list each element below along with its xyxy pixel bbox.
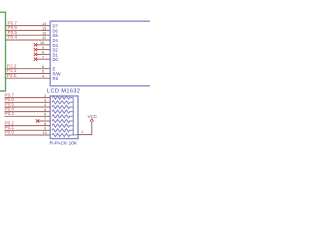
resistor R2 of RP1 (52, 101, 73, 104)
svg-text:P2.0: P2.0 (7, 73, 17, 78)
microcontroller U1 (body cut off at left edge) (0, 12, 6, 91)
wire P0.5 to RP1 pin 4 (5, 106, 51, 108)
wire P0.3 to RP1 pin 6 (5, 115, 51, 117)
resistor R5 of RP1 (52, 115, 73, 118)
wire P0.6 to LCD pin 13 (6, 29, 51, 31)
LCD pin 5 R/W (42, 69, 61, 77)
wire P0.4 to LCD pin 11 (6, 39, 51, 41)
wire P0.0 to RP1 pin 10 (5, 134, 51, 136)
svg-text:VCC: VCC (88, 114, 98, 119)
LCD pin 14 D7 (42, 21, 58, 29)
svg-text:RS: RS (53, 76, 59, 81)
svg-text:D0: D0 (53, 57, 59, 62)
no-connect cross on D2 (34, 48, 37, 51)
LCD pin 4 RS (42, 73, 58, 81)
resistor R8 of RP1 (52, 129, 73, 132)
wire P0.4 to RP1 pin 5 (5, 111, 51, 113)
resistor pack RP1 body (50, 96, 78, 139)
LCD pin 10 D3 with stub (37, 40, 59, 48)
wire P2.2 to LCD pin 6 E (6, 68, 51, 70)
RP1 pin 7 stub (unconnected) (38, 120, 50, 122)
LCD pin 8 D1 with stub (37, 50, 59, 58)
svg-text:1: 1 (81, 129, 83, 134)
LCD pin 11 D4 (42, 35, 58, 43)
no-connect cross on D3 (34, 43, 37, 46)
svg-text:P0.3: P0.3 (5, 111, 15, 116)
wire P0.5 to LCD pin 12 (6, 34, 51, 36)
resistor R9 of RP1 (52, 133, 73, 136)
resistor R4 of RP1 (52, 110, 73, 113)
no-connect cross on D0 (34, 58, 37, 61)
wire P2.1 to LCD pin 5 R/W (6, 73, 51, 75)
resistor R1 of RP1 (52, 96, 73, 99)
wire P0.7 to LCD pin 14 (6, 25, 51, 27)
LCD pin 12 D5 (42, 30, 58, 38)
LCD pin 9 D2 with stub (37, 45, 59, 53)
resistor R3 of RP1 (52, 105, 73, 108)
no-connect cross on D1 (34, 53, 37, 56)
LCD module LCD M1632 (box cut off at right edge) (50, 21, 150, 86)
LCD pin 7 D0 with stub (37, 54, 59, 62)
power symbol VCC (88, 114, 98, 122)
no-connect cross on RP1 pin 7 (36, 119, 39, 122)
LCD pin 6 E (42, 64, 56, 72)
wire P0.2 to RP1 pin 8 (5, 125, 51, 127)
svg-text:P0.0: P0.0 (5, 130, 15, 135)
LCD pin 13 D6 (42, 26, 58, 34)
svg-text:R-PACK 10K: R-PACK 10K (50, 141, 78, 147)
wire P2.0 to LCD pin 4 RS (6, 77, 51, 79)
RP1 pin numbers 2-10 (43, 93, 48, 135)
wire P0.7 to RP1 pin 2 (5, 97, 51, 99)
resistor R6 of RP1 (52, 119, 73, 122)
svg-text:P0.4: P0.4 (8, 35, 18, 40)
resistor R7 of RP1 (52, 124, 73, 127)
wire P0.6 to RP1 pin 3 (5, 101, 51, 103)
wire P0.1 to RP1 pin 9 (5, 129, 51, 131)
RP1 common bus line to pin 1 (73, 98, 78, 135)
svg-text:LCD M1632: LCD M1632 (47, 88, 80, 94)
wire RP1 pin 1 to VCC (78, 121, 92, 135)
svg-text:7: 7 (42, 54, 44, 59)
